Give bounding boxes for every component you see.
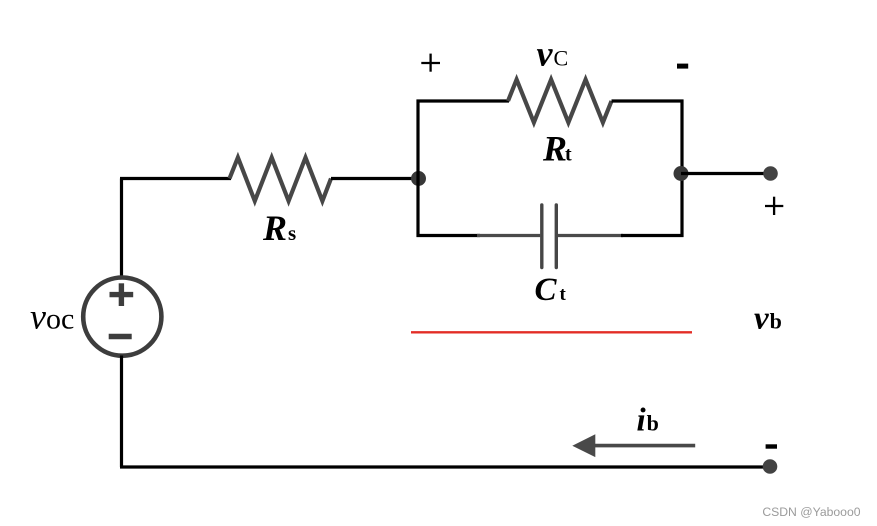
polarity minus of vC	[677, 64, 688, 69]
polarity plus of vC	[421, 54, 440, 72]
wire Rs right lead to node A	[331, 177, 418, 180]
resistor Rs zigzag	[230, 158, 332, 202]
capacitor Ct right lead	[558, 234, 623, 237]
svg-text:Ct: Ct	[535, 272, 567, 308]
capacitor Ct left plate	[540, 205, 543, 268]
capacitor Ct right plate	[555, 205, 558, 268]
svg-text:vb: vb	[754, 300, 782, 336]
bottom rail wire	[120, 465, 770, 468]
wire right vertical of parallel block	[680, 100, 683, 238]
red separator line	[411, 331, 692, 333]
wire top lead right of Rt	[612, 99, 684, 102]
label vb	[754, 300, 782, 336]
svg-text:vC: vC	[537, 34, 569, 74]
voltage source Voc circle	[83, 278, 161, 356]
svg-text:CSDN @Yabooo0: CSDN @Yabooo0	[762, 505, 860, 519]
wire top lead left into Rt	[417, 99, 510, 102]
label voc	[30, 296, 74, 336]
watermark	[762, 505, 860, 519]
node A junction dot	[411, 171, 426, 186]
output wire to positive terminal	[681, 172, 770, 175]
wire bottom lead black right	[621, 234, 684, 237]
label vC	[537, 34, 569, 74]
svg-text:voc: voc	[30, 296, 74, 336]
label Rs	[262, 208, 296, 248]
wire left vertical of parallel block	[416, 100, 419, 238]
output plus label	[765, 197, 783, 215]
wire main rail left lead into Rs	[120, 177, 231, 180]
current arrow ib head	[572, 434, 595, 457]
svg-text:Rs: Rs	[262, 208, 296, 248]
wire bottom lead black left	[417, 234, 481, 237]
svg-text:Rt: Rt	[542, 128, 572, 168]
resistor Rt zigzag	[508, 80, 612, 123]
label ib	[637, 402, 659, 438]
plus sign inside source	[110, 283, 134, 306]
positive terminal dot	[763, 166, 778, 181]
svg-text:ib: ib	[637, 402, 659, 438]
output minus label	[766, 444, 777, 448]
minus sign inside source	[109, 334, 132, 339]
current arrow ib shaft	[594, 444, 695, 448]
wire from source bottom down to bottom rail	[120, 356, 123, 468]
capacitor Ct left lead	[477, 234, 540, 237]
label Ct	[535, 272, 567, 308]
label Rt	[542, 128, 572, 168]
node B junction dot	[674, 166, 689, 181]
negative terminal dot	[763, 459, 778, 474]
wire from main rail down to voltage source top	[120, 179, 123, 279]
